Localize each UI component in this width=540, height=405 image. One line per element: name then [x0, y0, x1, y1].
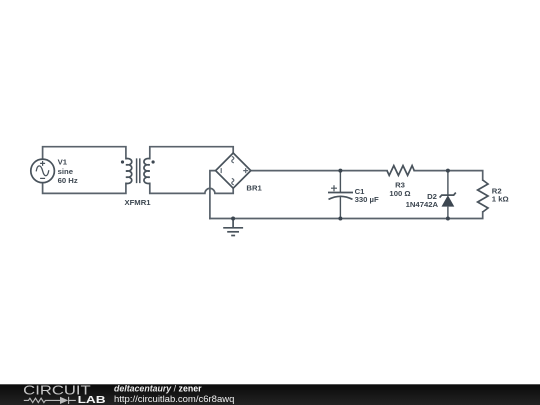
wire bottom ground rail: [210, 212, 483, 219]
svg-text:LAB: LAB: [78, 395, 106, 405]
junction dot C1 bottom: [338, 217, 342, 221]
secondary winding: [144, 158, 150, 183]
svg-text:100 Ω: 100 Ω: [389, 189, 410, 198]
wire BR1 right vertex output top rail to R3 left: [251, 170, 387, 172]
resistor R3: [387, 166, 414, 176]
svg-text:1 kΩ: 1 kΩ: [492, 195, 509, 204]
wire BR1 left vertex down to ground rail: [210, 171, 216, 219]
wire V1 bottom rail to XFMR1 primary bottom: [43, 183, 126, 194]
+ mark right: [243, 168, 248, 173]
label D2 1N4742A: [406, 192, 439, 209]
wire V1 top to XFMR1 primary top: [43, 147, 126, 159]
wire XFMR1 secondary bottom to BR1 bottom vertex with hop: [150, 183, 233, 193]
svg-text:BR1: BR1: [246, 184, 262, 193]
~ mark bottom (rotated tilde): [232, 178, 234, 184]
primary winding: [126, 158, 132, 183]
junction dot C1 top: [338, 169, 342, 173]
- mark left (rotated vertical): [220, 168, 222, 173]
svg-text:http://circuitlab.com/c6r8awq: http://circuitlab.com/c6r8awq: [114, 394, 234, 405]
junction dot D2 bottom: [446, 217, 450, 221]
svg-text:XFMR1: XFMR1: [124, 198, 151, 207]
bridge rectifier BR1: [216, 153, 251, 188]
label V1 sine 60 Hz: [58, 157, 78, 185]
svg-text:V1: V1: [58, 157, 68, 166]
core lines: [137, 158, 140, 183]
BR1 terminal marks: [221, 156, 248, 184]
capacitor C1: [328, 171, 353, 219]
ground: [223, 219, 243, 236]
svg-text:60 Hz: 60 Hz: [58, 176, 78, 185]
phase dot primary: [121, 160, 124, 163]
anode triangle: [442, 195, 455, 206]
svg-text:1N4742A: 1N4742A: [406, 200, 439, 209]
phase dot secondary: [152, 160, 155, 163]
zener diode D2: [440, 171, 456, 219]
junction dot D2 top: [446, 169, 450, 173]
zener cathode bar with bent ends: [440, 193, 456, 198]
junction dot ground: [231, 217, 235, 221]
logo resistor + diode glyph: [24, 397, 76, 404]
svg-text:deltacentaury / zener: deltacentaury / zener: [114, 383, 202, 393]
wire R3 right to R2 top corner: [414, 171, 483, 180]
wire XFMR1 secondary top to BR1 top vertex: [150, 147, 233, 159]
transformer XFMR1: [126, 158, 150, 183]
~ mark top (rotated tilde): [232, 156, 234, 162]
label R3 100ohm: [389, 181, 410, 198]
label R2 1kohm: [492, 187, 509, 204]
resistor R2: [478, 180, 488, 212]
voltage source V1: [31, 159, 55, 183]
svg-text:sine: sine: [58, 167, 74, 176]
svg-text:330 µF: 330 µF: [355, 195, 379, 204]
label C1 330uF: [355, 187, 379, 204]
